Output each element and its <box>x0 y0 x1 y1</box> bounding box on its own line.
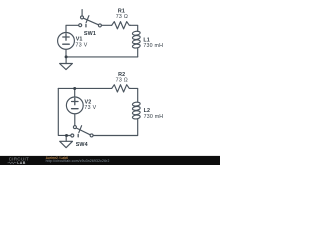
svg-text:73 Ω: 73 Ω <box>116 78 128 84</box>
wire top rail circuit 2 <box>58 87 111 89</box>
node junction dot circuit 1 (V1-/ground) <box>65 55 68 58</box>
footer logo resistor squiggle <box>7 162 16 164</box>
svg-text:SW1: SW1 <box>84 31 96 37</box>
switch SW4 <box>71 126 93 137</box>
svg-text:73 V: 73 V <box>76 42 88 48</box>
node junction dot V2+ top rail <box>73 87 76 90</box>
svg-text:73 V: 73 V <box>84 105 96 111</box>
svg-text:730 mH: 730 mH <box>143 43 163 49</box>
wire V1 top to SW1 left <box>66 25 79 32</box>
resistor R1 <box>112 22 131 29</box>
wire left branch circuit 2 <box>58 88 66 135</box>
ground (circuit 1) <box>60 57 73 70</box>
wire SW1 right to R1 <box>102 24 112 26</box>
resistor R2 <box>112 85 131 92</box>
wire L2 bottom to rail <box>93 119 138 135</box>
wire SW4 left to junction <box>67 135 71 137</box>
svg-text:730 mH: 730 mH <box>144 114 164 120</box>
footer bar <box>0 156 220 165</box>
wire L1 bottom to rail <box>137 48 139 57</box>
wire R1 to L1 top <box>131 25 138 31</box>
svg-text:SW4: SW4 <box>76 142 88 148</box>
inductor L1 <box>132 31 140 49</box>
svg-text:LAB: LAB <box>17 161 26 165</box>
wire bottom rail circuit 1 <box>66 56 138 58</box>
svg-text:73 Ω: 73 Ω <box>116 14 128 20</box>
voltage source V1 <box>58 33 75 57</box>
wire R2 to L2 top <box>131 88 138 102</box>
ground (circuit 2) <box>60 136 73 148</box>
switch SW1 <box>79 10 102 27</box>
svg-text:http://circuitlab.com/c9u3n269: http://circuitlab.com/c9u3n26932c26r2 <box>46 159 110 163</box>
inductor L2 <box>132 102 140 120</box>
node junction dot circuit 2 ground <box>65 134 68 137</box>
voltage source V2 <box>66 89 83 126</box>
